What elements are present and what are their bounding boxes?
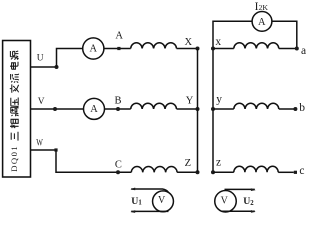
svg-text:A: A: [115, 31, 123, 42]
wire U up to row1: [57, 49, 83, 68]
svg-text:X: X: [185, 37, 193, 48]
label 三相调压交流电源 (pseudo-glyphs, rotated): [10, 51, 19, 141]
node Z: [196, 170, 200, 174]
node X: [196, 47, 200, 51]
label A: [115, 31, 123, 42]
node a: [295, 47, 299, 51]
wire coil to X: [177, 48, 198, 50]
label x: [215, 36, 221, 48]
primary winding C-Z: [131, 167, 177, 173]
wire W from box: [31, 149, 57, 151]
label B: [114, 95, 121, 106]
node A: [117, 47, 120, 50]
label y: [216, 93, 222, 105]
terminal label U: [37, 53, 44, 63]
secondary winding y-b: [234, 103, 279, 109]
svg-text:DQ01: DQ01: [9, 145, 19, 172]
wire coil to b: [279, 108, 296, 110]
svg-text:B: B: [114, 95, 121, 106]
secondary winding x-a: [234, 43, 279, 49]
voltmeter U2: [215, 190, 237, 212]
label X: [185, 37, 193, 48]
调: [11, 107, 19, 116]
junction dot on V wire: [53, 107, 57, 111]
node b: [293, 107, 297, 111]
wire x to coil: [213, 48, 234, 50]
wire z to coil: [213, 171, 234, 173]
svg-text:c: c: [299, 165, 304, 177]
svg-text:V: V: [38, 97, 45, 107]
terminal label V: [38, 97, 45, 107]
node C: [116, 170, 120, 174]
label U1: [131, 196, 142, 207]
primary winding B-Y: [131, 103, 177, 109]
node x: [211, 47, 215, 51]
label Z: [185, 158, 191, 169]
svg-text:I2K: I2K: [255, 1, 269, 13]
wire coil to c: [278, 171, 294, 173]
label b: [299, 102, 305, 114]
junction dot on U wire: [55, 65, 59, 69]
三: [11, 132, 18, 141]
svg-text:b: b: [299, 102, 305, 114]
power source box DQ01: [3, 41, 31, 178]
相: [10, 119, 19, 128]
压: [11, 98, 19, 107]
voltmeter U1 bottom probe lead: [131, 210, 168, 212]
wire A1 to node A: [104, 48, 131, 50]
svg-text:y: y: [216, 93, 222, 105]
wire A3 to node a: [272, 21, 297, 48]
svg-text:Y: Y: [186, 95, 194, 106]
voltmeter U2 top probe lead: [225, 188, 255, 190]
svg-text:x: x: [215, 36, 221, 48]
svg-text:V: V: [221, 196, 229, 207]
svg-text:C: C: [115, 159, 122, 170]
wire coil to Z: [177, 171, 197, 173]
svg-text:U1: U1: [131, 196, 142, 207]
wire coil to a: [279, 48, 297, 50]
wire V from box: [31, 108, 84, 110]
primary star bus X-Y-Z: [197, 49, 199, 173]
svg-text:U2: U2: [243, 196, 254, 207]
voltmeter U2 bottom probe lead: [222, 210, 255, 212]
wire coil to Y: [177, 108, 198, 110]
node y: [211, 107, 215, 111]
label I2K: [255, 1, 269, 13]
ammeter A1: [83, 38, 104, 59]
svg-text:Z: Z: [185, 158, 191, 169]
corner node on W wire: [54, 148, 57, 151]
svg-text:V: V: [158, 195, 166, 206]
voltmeter U1: [153, 191, 174, 212]
node c: [294, 171, 297, 174]
label a: [301, 45, 306, 57]
voltmeter U1 top probe lead: [131, 189, 168, 192]
svg-text:A: A: [90, 44, 98, 55]
label U2: [243, 196, 254, 207]
流: [11, 74, 19, 83]
svg-text:z: z: [216, 157, 221, 169]
label z: [216, 157, 221, 169]
svg-text:W: W: [36, 137, 43, 147]
label C: [115, 159, 122, 170]
wire A2 to node B: [105, 108, 131, 110]
svg-text:U: U: [37, 53, 44, 63]
wire W down to row3: [56, 150, 131, 172]
label DQ01 (rotated): [9, 145, 19, 172]
label c: [299, 165, 304, 177]
secondary star bus x-y-z with riser to ammeter: [213, 21, 252, 172]
wire U from box: [31, 66, 57, 68]
node Y: [196, 107, 200, 111]
svg-text:a: a: [301, 45, 306, 57]
ammeter A3 (I2K): [252, 12, 272, 32]
svg-text:A: A: [90, 104, 98, 115]
svg-text:A: A: [258, 17, 266, 28]
node z: [211, 170, 215, 174]
电: [10, 62, 18, 69]
交: [10, 84, 19, 92]
primary winding A-X: [131, 43, 177, 49]
ammeter A2: [84, 98, 105, 119]
label Y: [186, 95, 194, 106]
terminal label W: [36, 137, 43, 147]
node B: [116, 107, 120, 111]
secondary winding z-c: [234, 166, 278, 172]
源: [10, 51, 18, 60]
wire y to coil: [213, 108, 234, 110]
